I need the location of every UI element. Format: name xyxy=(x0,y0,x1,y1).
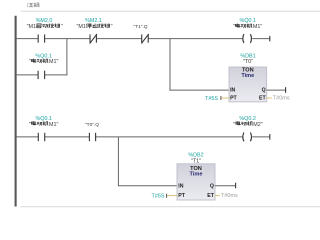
timer T1 PT tick xyxy=(166,194,168,198)
timer T1 PT wire (orange) xyxy=(167,195,177,197)
svg-text:"T0": "T0" xyxy=(243,59,253,65)
svg-text:": " xyxy=(29,122,31,128)
junction to timer T1 branch xyxy=(117,137,119,186)
contact "T0".Q (rung2 NO) xyxy=(89,133,95,141)
timer T0 Q output wire xyxy=(267,89,286,91)
svg-text:": " xyxy=(29,59,31,65)
contact "T1".Q (NC) xyxy=(141,34,148,44)
svg-text:": " xyxy=(233,24,235,30)
timer T1 IN wire xyxy=(118,185,177,187)
svg-text:"T0".Q: "T0".Q xyxy=(85,122,99,128)
timer block TON T0 xyxy=(229,67,267,102)
svg-text:%M2.1: %M2.1 xyxy=(85,18,102,24)
svg-text:T#5S: T#5S xyxy=(152,193,165,199)
svg-text:": " xyxy=(233,122,235,128)
wire rung2 contact "T0".Q to coil %Q0.2 xyxy=(96,136,243,138)
svg-text:PT: PT xyxy=(230,95,237,101)
contact %M2.1 M1 stop button (NC) xyxy=(90,34,97,44)
network comment text 注释 xyxy=(27,3,39,7)
svg-text:ET: ET xyxy=(259,95,266,101)
contact %Q0.1 (rung2 NO) xyxy=(38,133,44,141)
timer T0 IN wire xyxy=(170,89,230,91)
coil %Q0.1 motor M1 xyxy=(243,34,252,43)
svg-text:": " xyxy=(61,24,63,30)
label "电动机M1" (rung2) xyxy=(29,121,59,128)
svg-text:ET: ET xyxy=(207,193,214,199)
svg-text:"M1: "M1 xyxy=(77,24,86,30)
timer T0 ET wire (orange) xyxy=(267,97,272,99)
svg-text:Time: Time xyxy=(241,73,254,79)
coil %Q0.2 motor M2 xyxy=(243,133,252,142)
junction to latch branch xyxy=(66,39,68,76)
label "电动机M1" (coil) xyxy=(233,23,263,30)
label "M1停止按钮" xyxy=(77,23,113,30)
svg-text:M1": M1" xyxy=(253,24,262,30)
svg-text:M2": M2" xyxy=(253,122,262,128)
rung1 end tick xyxy=(269,36,271,42)
wire rung2 contact %Q0.1 to contact "T0".Q xyxy=(45,136,89,138)
svg-text:%Q0.1: %Q0.1 xyxy=(240,18,256,24)
timer T0 Q end tick xyxy=(285,87,287,93)
wire rung1 contact %M2.0 to contact %M2.1 xyxy=(45,38,90,40)
svg-text:Time: Time xyxy=(190,171,203,177)
svg-text:%M2.0: %M2.0 xyxy=(36,18,53,24)
svg-text:Q: Q xyxy=(210,183,214,189)
wire latch branch rail to contact %Q0.1 xyxy=(16,74,38,76)
junction to timer T0 branch xyxy=(169,39,171,91)
timer block TON T1 xyxy=(177,164,215,200)
wire rung2 coil %Q0.2 to end xyxy=(252,136,269,138)
rung2 end tick xyxy=(269,134,271,140)
wire rung2 rail to contact %Q0.1 xyxy=(16,136,38,138)
svg-text:PT: PT xyxy=(178,193,185,199)
timer T1 ET wire (orange) xyxy=(215,195,220,197)
label "M1启动按钮" xyxy=(27,24,63,31)
timer T1 Q end tick xyxy=(235,183,237,189)
svg-text:": " xyxy=(111,24,113,30)
bottom network separator line xyxy=(21,206,320,208)
timer T1 Q output wire xyxy=(215,185,236,187)
timer T0 PT tick xyxy=(220,96,222,100)
wire rung1 contact "T1".Q to coil %Q0.1 xyxy=(148,38,242,40)
label "电动机M2" (coil2) xyxy=(233,121,263,128)
contact %M2.0 M1 start button (NO) xyxy=(38,34,44,42)
svg-text:IN: IN xyxy=(178,183,183,189)
svg-text:T#5S: T#5S xyxy=(205,96,218,102)
wire rung1 rail to contact %M2.0 xyxy=(16,38,38,40)
svg-text:"T1".Q: "T1".Q xyxy=(133,24,147,30)
svg-text:T#0ms: T#0ms xyxy=(221,193,238,199)
svg-text:M1": M1" xyxy=(49,122,58,128)
contact %Q0.1 latch (NO) xyxy=(38,71,45,79)
svg-text:"M1: "M1 xyxy=(27,24,36,30)
wire latch branch contact %Q0.1 to junction xyxy=(45,74,68,76)
wire rung1 contact %M2.1 to contact "T1".Q xyxy=(96,38,141,40)
wire rung1 coil %Q0.1 to end xyxy=(252,38,269,40)
svg-text:Q: Q xyxy=(262,87,266,93)
label "电动机M1" (latch) xyxy=(29,59,59,66)
svg-text:IN: IN xyxy=(230,87,235,93)
timer T0 PT wire (orange) xyxy=(221,97,229,99)
network comment separator line xyxy=(21,10,320,12)
svg-text:M1": M1" xyxy=(49,59,58,65)
svg-text:T#0ms: T#0ms xyxy=(273,96,290,102)
left power rail xyxy=(15,16,17,207)
